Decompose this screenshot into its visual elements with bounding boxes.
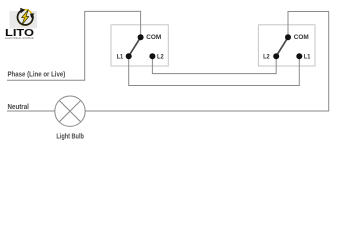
switch box S1 xyxy=(111,25,168,66)
logo icon yellow ring xyxy=(18,10,33,25)
logo icon arrowhead right xyxy=(30,13,34,18)
terminal COM S1 xyxy=(138,34,144,40)
svg-text:Phase (Line or Live): Phase (Line or Live) xyxy=(8,71,66,78)
svg-text:Neutral: Neutral xyxy=(8,104,29,111)
light bulb xyxy=(55,96,85,126)
svg-text:COM: COM xyxy=(294,34,309,41)
wire phase: from phase line up over to COM of S1 xyxy=(7,11,141,80)
terminal L2 S1 xyxy=(149,53,155,59)
wire traveller A: S1 L2 to S2 L2 xyxy=(152,56,276,73)
svg-text:L2: L2 xyxy=(157,54,164,61)
logo icon lightning bolt xyxy=(22,10,29,25)
svg-text:L1: L1 xyxy=(304,54,311,61)
wire traveller B: S1 L1 to S2 L1 xyxy=(129,56,300,85)
logo icon black arrow arc xyxy=(17,11,32,25)
terminal COM S2 xyxy=(285,34,291,40)
wire lamp feed: S2 COM up over right side down to bulb xyxy=(85,12,329,112)
terminal L1 S2 xyxy=(296,53,302,59)
terminal L1 S1 xyxy=(126,53,132,59)
svg-text:L1: L1 xyxy=(117,54,124,61)
lever S2 (L2 to COM) xyxy=(276,37,288,56)
svg-text:Light Bulb: Light Bulb xyxy=(56,133,84,140)
lever S1 (L1 to COM) xyxy=(129,37,141,56)
svg-text:COM: COM xyxy=(146,34,161,41)
logo LITO background plate xyxy=(10,11,38,29)
svg-text:ELECTRICAL SOURCE: ELECTRICAL SOURCE xyxy=(5,36,34,40)
logo icon arrowhead top xyxy=(20,8,25,13)
terminal L2 S2 xyxy=(273,53,279,59)
svg-text:L2: L2 xyxy=(263,54,270,61)
wire neutral xyxy=(7,110,55,112)
switch box S2 xyxy=(258,25,315,66)
